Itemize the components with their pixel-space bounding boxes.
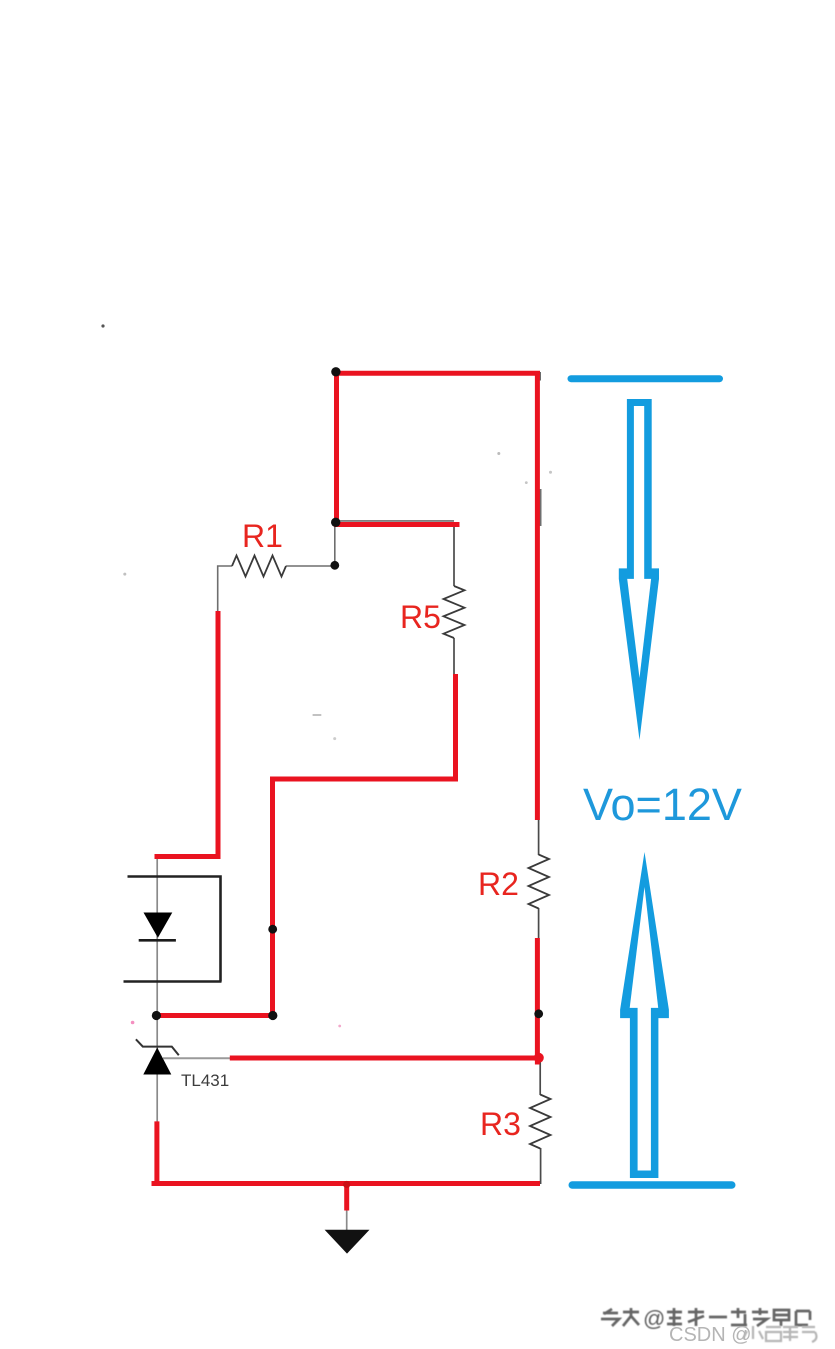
wire red R2 bottom vertical xyxy=(535,938,540,1065)
wire TL431 anode bottom xyxy=(156,1074,158,1122)
svg-text:CSDN @: CSDN @ xyxy=(669,1324,752,1346)
wire optocoupler vertical xyxy=(156,858,158,1016)
wire R3 top lead xyxy=(539,1062,541,1095)
label R5 xyxy=(400,601,441,633)
speck pink xyxy=(131,1021,135,1025)
wire R5 top lead xyxy=(453,526,455,586)
wire red horizontal opto top xyxy=(155,854,221,859)
TL431 U2 cathode bar with hooks xyxy=(136,1039,179,1055)
wire TL431 cathode top xyxy=(156,1014,158,1050)
wire red mid vertical xyxy=(270,777,275,1019)
wire gray remnant right vertical xyxy=(538,489,541,526)
wire red R5 bottom vertical xyxy=(453,674,458,782)
Vo minus terminal bar (bottom blue bar) xyxy=(569,1181,736,1189)
wire gray remnant top-right corner xyxy=(536,372,542,381)
resistor R5 xyxy=(444,586,465,638)
wire red ground stub xyxy=(344,1184,349,1211)
wire gray under top-left red horizontal xyxy=(336,520,454,522)
svg-text:@: @ xyxy=(643,1306,665,1331)
wire red bottom horizontal xyxy=(152,1181,541,1186)
speck gray 2 xyxy=(549,471,552,474)
node R1 right junction xyxy=(330,561,339,570)
speck gray 1 xyxy=(497,452,500,455)
wire red horizontal to R5 top xyxy=(334,522,460,527)
wire red left vertical to opto xyxy=(216,611,221,859)
label R1 xyxy=(242,520,283,552)
speck pink small xyxy=(338,1025,341,1028)
label R3 xyxy=(480,1108,521,1140)
arrow down (Vo polarity upper) xyxy=(619,399,659,740)
label R2 xyxy=(478,868,519,900)
ground xyxy=(325,1230,370,1254)
wire red left vertical upper xyxy=(334,370,339,525)
wire TL431 reference horizontal xyxy=(163,1057,235,1059)
label Vo=12V xyxy=(583,779,742,831)
node R2 line junction xyxy=(534,1009,543,1018)
node ref-R2 red junction xyxy=(534,1053,544,1063)
speck mid faint xyxy=(313,714,322,716)
arrow up (Vo polarity lower) xyxy=(620,852,669,1178)
wire red horizontal opto bottom xyxy=(154,1013,275,1018)
node opto bottom left junction xyxy=(152,1011,161,1020)
wire R5 bottom lead xyxy=(453,638,455,675)
wire junction vertical to R1 node xyxy=(334,525,336,567)
speck gray 3 xyxy=(525,481,528,484)
speck dot faint xyxy=(333,737,336,740)
wire R2 top lead xyxy=(538,818,540,855)
resistor R2 xyxy=(529,855,550,909)
node opto bottom right junction xyxy=(268,1011,277,1020)
wire ground lead xyxy=(346,1208,348,1230)
wire red top horizontal xyxy=(334,371,540,376)
optocoupler LED diode xyxy=(139,913,176,941)
node mid red vertical junction xyxy=(268,925,277,934)
wire red TL431 anode vertical xyxy=(154,1121,159,1186)
node top-left junction xyxy=(331,367,340,376)
node second corner junction xyxy=(331,518,340,527)
watermark line1 头条 @和我一起学电子 (stylized) xyxy=(601,1308,811,1327)
wire red TL431 ref horizontal xyxy=(230,1056,540,1061)
wire R1 right lead xyxy=(286,565,335,567)
wire R3 bottom lead xyxy=(540,1148,542,1184)
resistor R3 xyxy=(530,1095,551,1149)
resistor R1 xyxy=(232,556,286,577)
wire R2 bottom lead xyxy=(538,908,540,939)
wire red horizontal mid xyxy=(270,777,458,782)
wire red right vertical xyxy=(535,372,540,820)
TL431 U2 anode triangle xyxy=(143,1048,171,1075)
speck left mid xyxy=(123,573,126,576)
node ground stub junction xyxy=(343,1181,350,1188)
label TL431 xyxy=(181,1071,229,1091)
watermark line2 小高霸气 (stylized) xyxy=(743,1326,816,1342)
Vo plus terminal bar (top blue bar) xyxy=(568,375,724,382)
speck top-left xyxy=(101,324,104,327)
wire R1 left lead xyxy=(218,566,232,611)
optocoupler U1 box xyxy=(124,877,222,982)
